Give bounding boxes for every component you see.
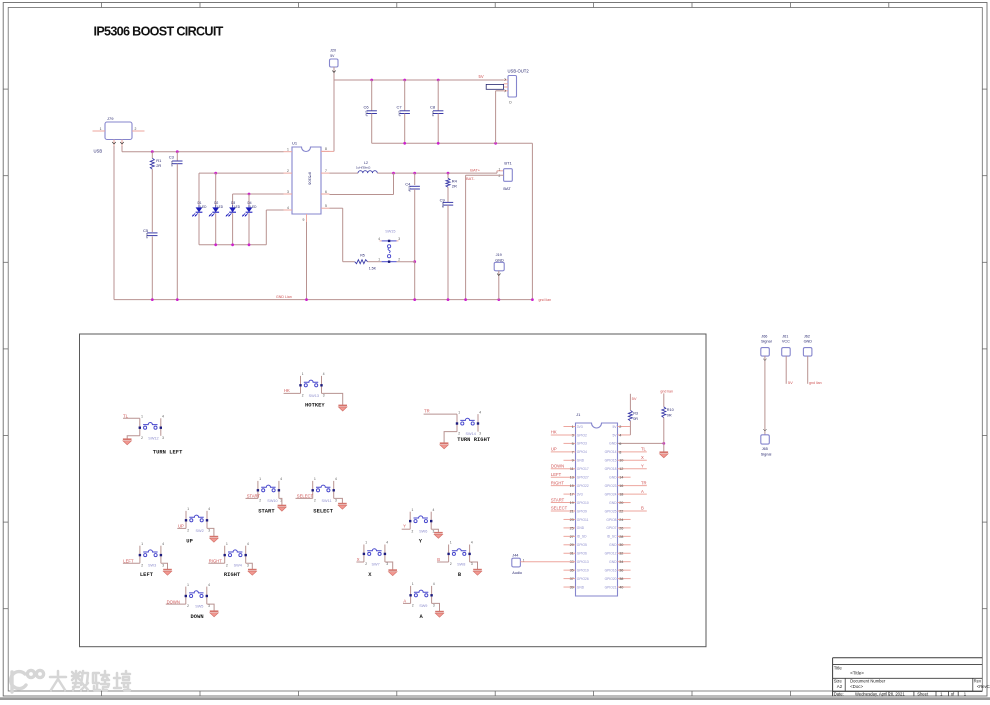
svg-text:2: 2 xyxy=(458,432,460,436)
svg-text:2R: 2R xyxy=(156,163,161,168)
svg-text:GPIO12: GPIO12 xyxy=(605,552,617,556)
svg-text:GND: GND xyxy=(577,526,585,530)
svg-text:GPIO22: GPIO22 xyxy=(577,484,589,488)
svg-text:GND: GND xyxy=(804,339,813,343)
svg-text:GPIO24: GPIO24 xyxy=(605,492,617,496)
svg-text:C7: C7 xyxy=(397,104,403,109)
svg-text:BAT: BAT xyxy=(503,186,511,191)
svg-text:10uF: 10uF xyxy=(441,202,445,208)
svg-text:2: 2 xyxy=(412,604,414,608)
svg-text:12: 12 xyxy=(619,467,623,471)
svg-text:B: B xyxy=(437,557,440,562)
svg-text:SW11: SW11 xyxy=(322,499,332,503)
svg-text:RIGHT: RIGHT xyxy=(224,572,241,578)
svg-text:3: 3 xyxy=(287,190,289,194)
svg-text:VCC: VCC xyxy=(782,339,790,343)
svg-text:2: 2 xyxy=(450,562,452,566)
svg-text:3: 3 xyxy=(323,394,325,398)
svg-text:SW2: SW2 xyxy=(196,529,204,533)
svg-text:J20: J20 xyxy=(330,49,336,53)
svg-text:5: 5 xyxy=(325,204,327,208)
svg-text:29: 29 xyxy=(570,543,574,547)
svg-text:A2: A2 xyxy=(837,684,843,689)
svg-text:4: 4 xyxy=(287,206,289,210)
svg-text:SW3: SW3 xyxy=(148,564,156,568)
svg-text:4: 4 xyxy=(335,477,337,481)
svg-text:28: 28 xyxy=(619,535,623,539)
svg-text:5: 5 xyxy=(572,442,574,446)
svg-text:3: 3 xyxy=(335,499,337,503)
svg-text:DOWN: DOWN xyxy=(167,599,180,604)
svg-text:SW13: SW13 xyxy=(309,394,319,398)
svg-text:3V3: 3V3 xyxy=(577,425,583,429)
svg-text:32: 32 xyxy=(619,552,623,556)
svg-text:GND: GND xyxy=(495,258,504,262)
svg-text:GND: GND xyxy=(577,459,585,463)
svg-text:2: 2 xyxy=(398,258,400,262)
svg-text:1: 1 xyxy=(499,167,501,171)
svg-text:3: 3 xyxy=(398,237,400,241)
svg-text:2: 2 xyxy=(141,436,143,440)
svg-text:gnd lian: gnd lian xyxy=(809,381,822,385)
svg-text:37: 37 xyxy=(570,577,574,581)
svg-text:SW5: SW5 xyxy=(195,605,203,609)
svg-text:SW7: SW7 xyxy=(372,563,380,567)
svg-text:R5: R5 xyxy=(360,253,365,257)
svg-text:LEFT: LEFT xyxy=(551,472,562,477)
svg-text:HOTKEY: HOTKEY xyxy=(305,403,325,409)
svg-text:TR: TR xyxy=(641,480,647,485)
svg-text:GPIO17: GPIO17 xyxy=(577,467,589,471)
svg-text:Signal: Signal xyxy=(761,452,772,456)
svg-text:START: START xyxy=(551,497,565,502)
svg-text:LEFT: LEFT xyxy=(123,558,134,563)
svg-text:4: 4 xyxy=(162,415,164,419)
svg-text:J62: J62 xyxy=(804,334,810,338)
svg-text:2: 2 xyxy=(259,499,261,503)
svg-text:4: 4 xyxy=(208,583,210,587)
svg-text:38: 38 xyxy=(619,577,623,581)
svg-text:J61: J61 xyxy=(782,334,788,338)
svg-text:SELECT: SELECT xyxy=(297,494,314,499)
svg-text:2: 2 xyxy=(187,529,189,533)
svg-text:1: 1 xyxy=(572,425,574,429)
svg-text:A: A xyxy=(403,599,406,604)
svg-text:C8: C8 xyxy=(430,104,436,109)
svg-text:SW15: SW15 xyxy=(385,229,395,233)
svg-text:GPIO4: GPIO4 xyxy=(577,450,587,454)
svg-text:TURN LEFT: TURN LEFT xyxy=(153,450,183,456)
svg-text:4: 4 xyxy=(378,237,380,241)
svg-text:3: 3 xyxy=(471,562,473,566)
svg-text:GND: GND xyxy=(609,543,617,547)
svg-text:2: 2 xyxy=(187,604,189,608)
svg-text:9: 9 xyxy=(303,218,305,222)
svg-text:3: 3 xyxy=(479,432,481,436)
svg-text:1: 1 xyxy=(365,541,367,545)
svg-text:GND: GND xyxy=(577,585,585,589)
svg-text:GPIO9: GPIO9 xyxy=(577,509,587,513)
svg-text:5V: 5V xyxy=(479,74,484,79)
svg-text:SELECT: SELECT xyxy=(551,506,568,511)
svg-text:2: 2 xyxy=(302,394,304,398)
svg-text:3: 3 xyxy=(386,562,388,566)
svg-text:J44: J44 xyxy=(512,554,518,558)
svg-text:J19: J19 xyxy=(496,253,502,257)
svg-text:1.5K: 1.5K xyxy=(369,267,377,271)
svg-text:4: 4 xyxy=(479,410,481,414)
svg-text:GPIO25: GPIO25 xyxy=(605,509,617,513)
svg-text:16: 16 xyxy=(619,484,623,488)
svg-text:3: 3 xyxy=(247,563,249,567)
svg-text:4: 4 xyxy=(247,542,249,546)
svg-text:<Doc>: <Doc> xyxy=(850,684,863,689)
svg-text:LED: LED xyxy=(217,205,224,209)
svg-text:1: 1 xyxy=(412,508,414,512)
svg-text:11: 11 xyxy=(570,467,574,471)
svg-text:GPIO7: GPIO7 xyxy=(606,526,616,530)
svg-text:HK: HK xyxy=(551,430,557,435)
svg-text:2: 2 xyxy=(412,529,414,533)
svg-text:17: 17 xyxy=(570,493,574,497)
svg-text:3V3: 3V3 xyxy=(577,492,583,496)
svg-text:GPIO10: GPIO10 xyxy=(577,501,589,505)
svg-text:BT1: BT1 xyxy=(504,161,512,166)
svg-text:LED: LED xyxy=(200,205,207,209)
svg-text:TL: TL xyxy=(641,447,647,452)
svg-text:0R: 0R xyxy=(633,417,638,421)
svg-text:20: 20 xyxy=(619,501,623,505)
svg-text:Y: Y xyxy=(641,463,644,468)
svg-text:RIGHT: RIGHT xyxy=(551,480,564,485)
svg-text:8: 8 xyxy=(325,147,327,151)
svg-text:SW8: SW8 xyxy=(457,563,465,567)
svg-text:1uH/30mΩ: 1uH/30mΩ xyxy=(356,166,371,170)
svg-text:1: 1 xyxy=(141,542,143,546)
svg-text:Signal: Signal xyxy=(761,339,772,343)
svg-text:GPIO8: GPIO8 xyxy=(606,518,616,522)
svg-text:LEFT: LEFT xyxy=(140,572,154,578)
svg-text:SW4: SW4 xyxy=(234,564,242,568)
svg-text:1: 1 xyxy=(450,541,452,545)
svg-text:3: 3 xyxy=(162,563,164,567)
svg-text:7: 7 xyxy=(572,450,574,454)
svg-text:5V: 5V xyxy=(632,396,637,401)
svg-text:4: 4 xyxy=(323,372,325,376)
svg-text:Y: Y xyxy=(403,524,406,529)
svg-text:1: 1 xyxy=(226,542,228,546)
svg-text:1: 1 xyxy=(302,372,304,376)
svg-text:1: 1 xyxy=(314,477,316,481)
svg-text:4: 4 xyxy=(433,508,435,512)
svg-text:SW10: SW10 xyxy=(267,499,277,503)
svg-text:GPIO21: GPIO21 xyxy=(605,585,617,589)
svg-text:GPIO20: GPIO20 xyxy=(605,577,617,581)
svg-text:GPIO5: GPIO5 xyxy=(577,543,587,547)
svg-text:22: 22 xyxy=(619,509,623,513)
svg-text:J65: J65 xyxy=(762,447,768,451)
svg-text:IP5306 BOOST CIRCUIT: IP5306 BOOST CIRCUIT xyxy=(94,25,224,39)
svg-text:26: 26 xyxy=(619,526,623,530)
svg-text:USB: USB xyxy=(94,149,103,154)
svg-text:GND: GND xyxy=(609,560,617,564)
svg-text:TURN RIGHT: TURN RIGHT xyxy=(457,437,491,443)
svg-text:GND: GND xyxy=(609,476,617,480)
svg-text:4: 4 xyxy=(433,582,435,586)
svg-text:<RevCo: <RevCo xyxy=(977,684,990,689)
svg-text:GND Lian: GND Lian xyxy=(276,295,292,299)
svg-text:13: 13 xyxy=(570,476,574,480)
svg-text:1: 1 xyxy=(187,583,189,587)
svg-text:RIGHT: RIGHT xyxy=(209,558,222,563)
svg-text:X: X xyxy=(641,455,644,460)
svg-text:GPIO14: GPIO14 xyxy=(605,450,617,454)
svg-text:Wednesday, April 28, 2021: Wednesday, April 28, 2021 xyxy=(855,692,905,697)
svg-text:10uF: 10uF xyxy=(170,161,174,167)
svg-text:10uF: 10uF xyxy=(365,111,369,117)
svg-text:GPIO16: GPIO16 xyxy=(605,568,617,572)
svg-text:BAT-: BAT- xyxy=(466,176,475,181)
svg-text:31: 31 xyxy=(570,552,574,556)
svg-text:1: 1 xyxy=(141,415,143,419)
svg-text:A: A xyxy=(641,489,644,494)
svg-text:10uF: 10uF xyxy=(431,111,435,117)
svg-text:9: 9 xyxy=(572,459,574,463)
svg-text:10uF: 10uF xyxy=(408,186,412,192)
svg-text:UP: UP xyxy=(186,539,193,545)
svg-text:40: 40 xyxy=(619,585,623,589)
svg-text:2: 2 xyxy=(619,425,621,429)
svg-text:2: 2 xyxy=(135,127,137,131)
svg-text:GPIO13: GPIO13 xyxy=(577,560,589,564)
svg-text:GND: GND xyxy=(609,501,617,505)
svg-text:Audio: Audio xyxy=(512,571,522,575)
svg-text:HK: HK xyxy=(284,388,290,393)
svg-text:10: 10 xyxy=(619,459,623,463)
svg-text:Date:: Date: xyxy=(834,692,844,697)
svg-text:TL: TL xyxy=(123,413,129,418)
svg-text:J79: J79 xyxy=(107,116,114,121)
svg-text:GPIO27: GPIO27 xyxy=(577,476,589,480)
svg-text:18: 18 xyxy=(619,493,623,497)
svg-text:LED: LED xyxy=(234,205,241,209)
svg-text:SW14: SW14 xyxy=(466,432,476,436)
svg-text:gnd lian: gnd lian xyxy=(539,298,552,302)
svg-text:2: 2 xyxy=(141,563,143,567)
svg-text:R3: R3 xyxy=(633,412,638,416)
svg-text:8: 8 xyxy=(619,450,621,454)
svg-text:SW9: SW9 xyxy=(419,604,427,608)
svg-text:L2: L2 xyxy=(364,161,368,165)
svg-text:21: 21 xyxy=(570,509,574,513)
svg-text:SW12: SW12 xyxy=(148,436,158,440)
svg-text:BAT+: BAT+ xyxy=(470,168,480,173)
svg-text:USB-OUT2: USB-OUT2 xyxy=(508,69,530,74)
svg-text:5V: 5V xyxy=(788,380,793,385)
svg-text:GPIO18: GPIO18 xyxy=(605,467,617,471)
svg-text:C6: C6 xyxy=(364,104,370,109)
svg-text:GPIO19: GPIO19 xyxy=(577,568,589,572)
svg-text:J66: J66 xyxy=(761,334,767,338)
svg-text:3: 3 xyxy=(572,433,574,437)
svg-text:4: 4 xyxy=(208,507,210,511)
svg-text:4: 4 xyxy=(162,542,164,546)
svg-text:GPIO23: GPIO23 xyxy=(605,484,617,488)
svg-text:SELECT: SELECT xyxy=(313,509,333,515)
svg-text:gnd lian: gnd lian xyxy=(660,389,673,393)
svg-text:R10: R10 xyxy=(667,408,674,412)
svg-text:25: 25 xyxy=(570,526,574,530)
svg-text:7: 7 xyxy=(325,169,327,173)
svg-text:2: 2 xyxy=(287,169,289,173)
svg-text:1: 1 xyxy=(259,477,261,481)
svg-text:19: 19 xyxy=(570,501,574,505)
svg-text:START: START xyxy=(247,494,261,499)
svg-text:UP: UP xyxy=(551,447,557,452)
svg-text:3: 3 xyxy=(208,529,210,533)
svg-text:4: 4 xyxy=(619,433,621,437)
svg-text:3: 3 xyxy=(162,436,164,440)
svg-text:39: 39 xyxy=(570,585,574,589)
svg-text:2: 2 xyxy=(226,563,228,567)
svg-text:6: 6 xyxy=(619,442,621,446)
svg-text:GND: GND xyxy=(609,442,617,446)
svg-text:UP: UP xyxy=(178,524,184,529)
svg-text:30: 30 xyxy=(619,543,623,547)
svg-text:<Title>: <Title> xyxy=(850,671,864,676)
svg-text:2: 2 xyxy=(365,562,367,566)
svg-text:GPIO3: GPIO3 xyxy=(577,442,587,446)
svg-text:6: 6 xyxy=(325,190,327,194)
svg-text:GPIO15: GPIO15 xyxy=(605,459,617,463)
svg-text:C3: C3 xyxy=(169,155,175,160)
svg-text:1: 1 xyxy=(378,258,380,262)
svg-text:DOWN: DOWN xyxy=(191,614,204,620)
svg-text:Sheet: Sheet xyxy=(917,692,929,697)
svg-text:ID_SD: ID_SD xyxy=(577,535,587,539)
svg-text:35: 35 xyxy=(570,569,574,573)
svg-text:1: 1 xyxy=(287,148,289,152)
svg-text:Title: Title xyxy=(834,666,843,671)
svg-text:10uF: 10uF xyxy=(145,233,149,239)
svg-text:IP5306: IP5306 xyxy=(308,172,313,185)
svg-text:GPIO26: GPIO26 xyxy=(577,577,589,581)
svg-text:10uF: 10uF xyxy=(398,111,402,117)
svg-text:3: 3 xyxy=(208,604,210,608)
svg-text:X: X xyxy=(357,557,360,562)
svg-text:GPIO2: GPIO2 xyxy=(577,433,587,437)
svg-text:3: 3 xyxy=(433,604,435,608)
svg-text:LED: LED xyxy=(250,205,257,209)
svg-text:DOWN: DOWN xyxy=(551,463,564,468)
svg-text:1: 1 xyxy=(412,582,414,586)
svg-text:GPIO6: GPIO6 xyxy=(577,552,587,556)
svg-text:SW6: SW6 xyxy=(419,530,427,534)
svg-text:0R: 0R xyxy=(667,413,672,417)
svg-text:2R: 2R xyxy=(452,183,457,188)
svg-text:ID_SC: ID_SC xyxy=(607,535,617,539)
svg-text:34: 34 xyxy=(619,560,623,564)
svg-text:14: 14 xyxy=(619,476,623,480)
svg-text:4: 4 xyxy=(280,477,282,481)
svg-text:B: B xyxy=(641,506,644,511)
svg-text:23: 23 xyxy=(570,518,574,522)
svg-text:4: 4 xyxy=(386,541,388,545)
svg-text:4: 4 xyxy=(471,541,473,545)
svg-text:1: 1 xyxy=(458,410,460,414)
svg-text:TR: TR xyxy=(424,409,430,414)
svg-text:U1: U1 xyxy=(292,141,298,146)
svg-text:START: START xyxy=(258,509,275,515)
svg-text:15: 15 xyxy=(570,484,574,488)
svg-text:5V: 5V xyxy=(330,54,335,58)
svg-text:24: 24 xyxy=(619,518,623,522)
svg-text:GPIO11: GPIO11 xyxy=(577,518,589,522)
svg-text:1: 1 xyxy=(100,127,102,131)
svg-text:36: 36 xyxy=(619,569,623,573)
svg-text:1: 1 xyxy=(187,507,189,511)
svg-text:2: 2 xyxy=(314,499,316,503)
svg-text:27: 27 xyxy=(570,535,574,539)
